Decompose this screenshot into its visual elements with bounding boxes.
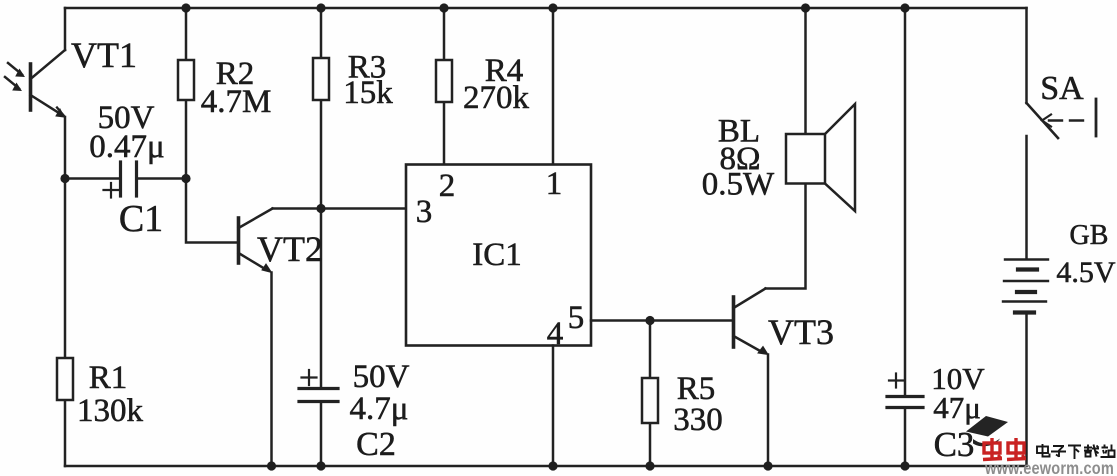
transistor VT1 — [5, 50, 65, 117]
node R5 pin5 — [645, 316, 654, 325]
svg-text:C1: C1 — [119, 198, 163, 240]
wire R2 to VT2 base — [186, 179, 238, 243]
node top rail R2 — [181, 3, 190, 12]
svg-text:IC1: IC1 — [472, 237, 522, 273]
wire C3 column — [904, 8, 907, 396]
capacitor C1 — [65, 162, 186, 198]
svg-text:1: 1 — [546, 166, 563, 202]
watermark chongchong red characters — [983, 438, 1026, 460]
node top rail R3 — [316, 3, 325, 12]
IC U1 IC1 box — [406, 165, 591, 346]
node top rail pin1 — [548, 3, 557, 12]
node top rail BL — [801, 3, 810, 12]
speaker BL — [786, 104, 855, 211]
svg-text:4.7μ: 4.7μ — [350, 391, 409, 427]
svg-text:2: 2 — [439, 168, 456, 204]
wire VT2 emitter down — [270, 273, 273, 467]
node bottom rail R5 — [645, 461, 654, 470]
node R3 pin3 — [316, 204, 325, 213]
wire R4 column — [443, 8, 446, 164]
resistor R5 — [642, 378, 658, 423]
node bottom rail VT2 emitter — [267, 461, 276, 470]
transistor VT3 — [734, 289, 769, 355]
svg-text:4.5V: 4.5V — [1056, 256, 1116, 289]
wire R2 column — [185, 8, 188, 179]
svg-text:130k: 130k — [77, 393, 144, 429]
svg-text:VT3: VT3 — [768, 312, 834, 352]
node bottom rail C3 — [900, 461, 909, 470]
resistor R1 — [57, 358, 73, 400]
svg-text:C2: C2 — [356, 426, 396, 463]
capacitor C2 — [299, 370, 338, 466]
svg-text:15k: 15k — [343, 75, 393, 111]
svg-text:47μ: 47μ — [933, 390, 981, 425]
wire bottom rail — [65, 465, 1026, 468]
switch SA — [1027, 8, 1097, 259]
svg-text:5: 5 — [568, 300, 585, 336]
watermark graduation cap — [966, 416, 1008, 446]
wire pin1 column — [552, 8, 555, 164]
svg-text:50V: 50V — [353, 359, 410, 395]
svg-text:4: 4 — [547, 316, 564, 352]
svg-text:GB: GB — [1070, 220, 1109, 251]
node C1 right R2 bottom — [181, 174, 190, 183]
svg-text:270k: 270k — [463, 80, 530, 116]
battery GB — [1003, 260, 1048, 467]
wire VT2 collector to pin 3 — [273, 207, 407, 210]
svg-text:www.eeworm.com: www.eeworm.com — [984, 458, 1114, 476]
transistor VT2 — [239, 209, 273, 273]
node top rail C3 — [900, 3, 909, 12]
watermark text dianzi xiazaizhan — [1037, 444, 1115, 459]
resistor R2 — [178, 60, 194, 100]
node bottom rail VT3 emitter — [763, 461, 772, 470]
wire R5 column — [649, 321, 652, 467]
resistor R4 — [436, 60, 452, 102]
wire VT3 emitter down — [767, 355, 770, 467]
wire speaker column top — [804, 8, 807, 134]
wire VT3 collector up to speaker — [766, 184, 806, 289]
svg-text:4.7M: 4.7M — [201, 84, 272, 120]
capacitor C3 — [887, 374, 923, 467]
svg-text:SA: SA — [1040, 70, 1084, 107]
wire pin5 to VT3 base — [591, 319, 733, 322]
wire left column lower — [64, 117, 67, 466]
svg-text:3: 3 — [416, 194, 433, 230]
svg-text:330: 330 — [673, 402, 723, 438]
wire pin4 column — [552, 346, 555, 467]
svg-text:0.47μ: 0.47μ — [89, 129, 164, 165]
node C1 left — [60, 174, 69, 183]
svg-text:R1: R1 — [89, 360, 128, 396]
node bottom rail pin4 — [548, 461, 557, 470]
svg-text:VT1: VT1 — [71, 35, 137, 75]
wire left column upper — [64, 8, 67, 50]
node bottom rail C2 — [316, 461, 325, 470]
resistor R3 — [313, 58, 329, 100]
node top rail R4 — [439, 3, 448, 12]
svg-text:0.5W: 0.5W — [702, 167, 775, 203]
wire top rail — [65, 7, 1027, 10]
svg-text:VT2: VT2 — [257, 229, 323, 269]
wire R3 column — [320, 8, 323, 388]
